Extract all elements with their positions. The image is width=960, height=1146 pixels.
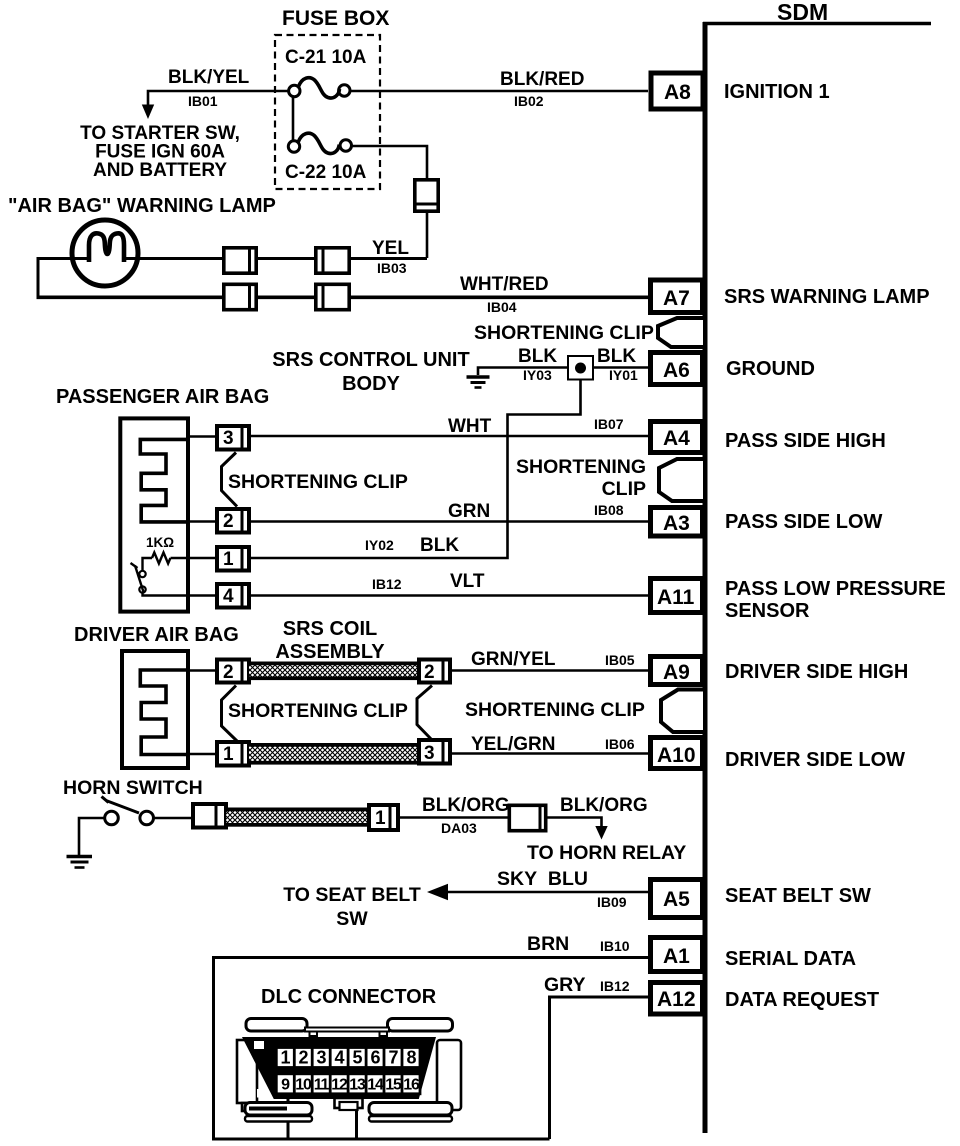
passenger pin 1 connector xyxy=(217,545,249,573)
DLC connector housing top-right bar xyxy=(388,1019,453,1032)
wire resistor to switch xyxy=(143,558,153,571)
wire GRN (IB08) pin2 to A3 xyxy=(251,520,648,523)
svg-text:DA03: DA03 xyxy=(441,820,477,836)
svg-text:A6: A6 xyxy=(663,359,690,382)
passenger air bag box xyxy=(120,418,188,611)
wire horn switch to connector xyxy=(154,817,191,820)
svg-text:TO HORN RELAY: TO HORN RELAY xyxy=(527,842,686,864)
horn pin 1 connector xyxy=(369,803,398,832)
wire driver box to pin1 xyxy=(190,753,215,756)
svg-text:ASSEMBLY: ASSEMBLY xyxy=(275,641,385,663)
junction box with node xyxy=(568,356,593,380)
driver pin 1 connector (left) xyxy=(217,740,249,768)
svg-text:FUSE BOX: FUSE BOX xyxy=(282,7,389,30)
shortening clip bracket (driver right) xyxy=(417,686,432,741)
wire lamp top row to YEL xyxy=(123,257,427,260)
svg-text:10: 10 xyxy=(295,1077,312,1094)
svg-text:3: 3 xyxy=(424,743,435,764)
svg-text:IB01: IB01 xyxy=(188,93,218,109)
DLC bottom-right bar xyxy=(369,1103,452,1116)
passenger pin 3 connector xyxy=(217,424,249,452)
svg-text:IY02: IY02 xyxy=(365,537,394,553)
svg-text:"AIR BAG" WARNING LAMP: "AIR BAG" WARNING LAMP xyxy=(8,195,276,217)
wire VLT (IB12) pin4 to A11 xyxy=(251,594,648,597)
svg-text:5: 5 xyxy=(352,1048,362,1068)
wire BLK/ORG (DA03) xyxy=(400,816,508,819)
DLC bottom-left lower bar xyxy=(245,1116,312,1122)
svg-text:GRN/YEL: GRN/YEL xyxy=(471,649,556,670)
DLC pin row 2 (pins 9-16) xyxy=(276,1074,420,1094)
DLC right ear xyxy=(437,1040,461,1110)
svg-text:WHT/RED: WHT/RED xyxy=(460,274,549,295)
wire resistor to pin1 connector xyxy=(171,557,216,560)
wire BRN (IB10) from A1 to DLC xyxy=(214,958,649,1140)
SDM main vertical bus line xyxy=(703,22,708,1133)
svg-text:4: 4 xyxy=(223,586,234,607)
svg-text:TO SEAT BELT: TO SEAT BELT xyxy=(283,884,421,906)
DLC left ear xyxy=(237,1040,257,1103)
connector A6 xyxy=(651,353,703,385)
SRS coil cable upper (shaded) xyxy=(249,662,419,681)
wire WHT/RED (IB04) lamp bottom row to A7 xyxy=(37,295,649,299)
svg-text:BLK: BLK xyxy=(597,346,636,367)
svg-text:A11: A11 xyxy=(657,586,695,609)
switch lever tick xyxy=(131,563,138,568)
svg-text:AND BATTERY: AND BATTERY xyxy=(93,160,227,181)
SRS coil cable lower (shaded) xyxy=(249,743,419,765)
inline connector pair bottom-left xyxy=(224,283,256,312)
svg-text:BLK/ORG: BLK/ORG xyxy=(560,795,648,816)
wire fuse C21 to C22 xyxy=(292,97,295,142)
SDM top wire xyxy=(703,22,931,26)
svg-text:A8: A8 xyxy=(664,81,691,104)
wire BLK IY03 to ground xyxy=(478,368,568,376)
svg-text:VLT: VLT xyxy=(450,571,485,592)
svg-text:PASS SIDE LOW: PASS SIDE LOW xyxy=(725,511,883,533)
arrow to seat belt sw xyxy=(427,884,448,901)
driver squib coil meander xyxy=(140,670,190,755)
svg-text:2: 2 xyxy=(298,1048,308,1068)
connector A11 xyxy=(651,579,703,613)
wire SKY BLU (IB09) from A5 xyxy=(444,891,648,894)
svg-text:YEL/GRN: YEL/GRN xyxy=(471,734,555,755)
svg-text:SHORTENING CLIP: SHORTENING CLIP xyxy=(465,699,645,721)
svg-text:GRN: GRN xyxy=(448,501,490,522)
svg-text:C-21 10A: C-21 10A xyxy=(285,47,367,68)
connector A10 xyxy=(651,738,703,769)
resistor 1K xyxy=(152,553,170,564)
fuse box dashed outline xyxy=(275,35,380,189)
horn switch lever tick xyxy=(102,797,109,803)
svg-text:SHORTENING CLIP: SHORTENING CLIP xyxy=(228,700,408,722)
connector A9 xyxy=(651,657,703,685)
connector A5 xyxy=(651,880,703,918)
DLC left foot xyxy=(242,1103,257,1111)
svg-text:SRS WARNING LAMP: SRS WARNING LAMP xyxy=(724,286,930,308)
svg-text:BODY: BODY xyxy=(342,373,400,395)
svg-text:IGNITION 1: IGNITION 1 xyxy=(724,81,830,103)
svg-text:A9: A9 xyxy=(663,661,690,684)
svg-text:SENSOR: SENSOR xyxy=(725,600,810,622)
ground (SRS control unit body) xyxy=(467,377,490,388)
wire DLC bottom bus xyxy=(212,1138,550,1141)
wire switch to pin4 row xyxy=(143,593,216,596)
svg-text:YEL: YEL xyxy=(372,238,409,259)
svg-text:12: 12 xyxy=(331,1077,348,1094)
coil pin 3 connector (right) xyxy=(419,738,450,766)
svg-text:IB08: IB08 xyxy=(594,502,624,518)
svg-text:IB12: IB12 xyxy=(600,978,630,994)
svg-text:3: 3 xyxy=(316,1048,326,1068)
fuse C-22 xyxy=(288,133,351,153)
svg-text:1KΩ: 1KΩ xyxy=(146,535,174,550)
wire driver box to pin2 xyxy=(190,669,215,672)
svg-text:IB06: IB06 xyxy=(605,736,635,752)
horn cable (shaded) xyxy=(226,808,367,827)
svg-text:PASS LOW PRESSURE: PASS LOW PRESSURE xyxy=(725,578,946,600)
svg-text:1: 1 xyxy=(223,549,234,570)
svg-text:SHORTENING: SHORTENING xyxy=(516,456,646,478)
wire YEL/GRN (IB06) to A10 xyxy=(452,752,648,755)
DLC bottom-left bar mark xyxy=(249,1107,287,1111)
svg-text:11: 11 xyxy=(314,1077,330,1094)
svg-text:C-22 10A: C-22 10A xyxy=(285,162,367,183)
svg-text:1: 1 xyxy=(375,808,386,829)
svg-text:SRS COIL: SRS COIL xyxy=(283,618,377,640)
svg-text:4: 4 xyxy=(334,1048,344,1068)
DLC main body (black) xyxy=(242,1037,436,1099)
svg-text:BLK: BLK xyxy=(518,346,557,367)
connector A12 xyxy=(651,983,703,1015)
svg-text:SERIAL DATA: SERIAL DATA xyxy=(725,948,856,970)
lamp filament xyxy=(89,233,124,262)
switch contact lower xyxy=(139,586,145,592)
connector A8 xyxy=(651,73,703,109)
svg-text:SEAT BELT SW: SEAT BELT SW xyxy=(725,885,871,907)
svg-text:IB05: IB05 xyxy=(605,652,635,668)
warning lamp bulb xyxy=(72,220,138,286)
svg-text:BLK/YEL: BLK/YEL xyxy=(168,67,250,88)
svg-text:A7: A7 xyxy=(663,287,690,310)
svg-text:IY01: IY01 xyxy=(609,367,638,383)
wire BLK/RED (IB02) to A8 xyxy=(350,90,648,93)
fuse C-21 xyxy=(289,78,350,98)
shortening clip symbol A7-A6 xyxy=(658,318,705,347)
DLC connector housing top-left bar xyxy=(246,1019,307,1032)
DLC bottom center tab xyxy=(335,1098,363,1108)
svg-text:SHORTENING CLIP: SHORTENING CLIP xyxy=(228,471,408,493)
passenger pin 2 connector xyxy=(217,507,249,535)
horn switch lever xyxy=(106,801,139,814)
shortening clip bracket (passenger) xyxy=(222,453,238,507)
svg-text:9: 9 xyxy=(281,1077,290,1094)
svg-text:PASSENGER AIR BAG: PASSENGER AIR BAG xyxy=(56,386,269,408)
inline connector pair top-right xyxy=(316,246,349,275)
svg-text:15: 15 xyxy=(385,1077,402,1094)
svg-text:A10: A10 xyxy=(657,744,696,767)
svg-text:GROUND: GROUND xyxy=(726,358,815,380)
svg-text:BRN: BRN xyxy=(527,933,569,955)
wire GRY (IB12) from A12 to DLC xyxy=(550,997,649,1139)
svg-text:IB09: IB09 xyxy=(597,894,627,910)
switch lever xyxy=(135,566,144,593)
svg-text:IB04: IB04 xyxy=(487,299,517,315)
wire DLC pin13 down xyxy=(355,1108,358,1139)
svg-text:A5: A5 xyxy=(663,888,690,911)
wire lamp top row left xyxy=(38,259,90,298)
horn connector (left) xyxy=(193,802,226,830)
DLC bottom-right lower bar xyxy=(369,1116,452,1122)
svg-text:16: 16 xyxy=(403,1077,420,1094)
svg-text:2: 2 xyxy=(223,511,234,532)
svg-text:6: 6 xyxy=(370,1048,380,1068)
inline connector pair top-left xyxy=(224,246,256,275)
svg-text:BLK/ORG: BLK/ORG xyxy=(422,795,510,816)
switch contact upper xyxy=(139,571,145,577)
arrow to horn relay xyxy=(595,826,607,840)
driver air bag box xyxy=(122,651,188,768)
svg-text:SDM: SDM xyxy=(777,0,828,25)
svg-text:SW: SW xyxy=(336,908,368,930)
wire pass box to pin2 xyxy=(190,520,215,523)
svg-text:14: 14 xyxy=(367,1077,384,1094)
svg-text:IY03: IY03 xyxy=(523,367,552,383)
shortening clip symbol A4-A3 xyxy=(659,459,705,501)
svg-text:3: 3 xyxy=(223,428,234,449)
svg-text:CLIP: CLIP xyxy=(602,478,646,500)
svg-text:2: 2 xyxy=(424,662,435,683)
svg-text:IB10: IB10 xyxy=(600,938,630,954)
inline connector BLK/ORG xyxy=(509,804,545,833)
svg-text:SRS CONTROL UNIT: SRS CONTROL UNIT xyxy=(272,349,469,371)
ground (horn switch) xyxy=(67,857,93,868)
svg-text:1: 1 xyxy=(223,744,234,765)
svg-text:PASS SIDE HIGH: PASS SIDE HIGH xyxy=(725,430,886,452)
svg-text:HORN SWITCH: HORN SWITCH xyxy=(63,777,203,799)
svg-text:GRY: GRY xyxy=(544,974,586,996)
inline connector pair bottom-right xyxy=(316,283,349,312)
svg-text:IB12: IB12 xyxy=(372,576,402,592)
svg-text:1: 1 xyxy=(280,1048,290,1068)
DLC housing top tabs xyxy=(310,1032,318,1037)
DLC body notch bottom-left xyxy=(257,1089,268,1098)
svg-text:IB02: IB02 xyxy=(514,93,544,109)
svg-text:IB07: IB07 xyxy=(594,416,624,432)
squib coil meander xyxy=(140,439,190,522)
passenger pin 4 connector xyxy=(217,582,249,610)
svg-text:WHT: WHT xyxy=(448,416,492,437)
connector A7 xyxy=(651,280,703,313)
connector A1 xyxy=(651,938,703,972)
svg-text:DLC CONNECTOR: DLC CONNECTOR xyxy=(261,986,437,1008)
svg-text:SKY BLU: SKY BLU xyxy=(497,868,588,890)
svg-text:A12: A12 xyxy=(657,988,696,1011)
wire junction down to BLK IY02 row xyxy=(251,380,581,559)
horn switch contact left xyxy=(105,811,119,825)
wire fuse C22 down to inline connector xyxy=(352,146,427,178)
DLC body notch top-left xyxy=(254,1041,264,1049)
driver pin 2 connector (left) xyxy=(217,658,249,685)
wire YEL (IB03) down to lamp row xyxy=(426,213,429,258)
svg-text:A1: A1 xyxy=(663,945,690,968)
svg-text:7: 7 xyxy=(388,1048,398,1068)
svg-text:8: 8 xyxy=(406,1048,416,1068)
wire GRN/YEL (IB05) to A9 xyxy=(452,669,648,672)
connector A3 xyxy=(651,508,703,537)
horn switch contact right xyxy=(140,811,154,825)
node dot xyxy=(575,363,586,374)
wire horn switch to ground xyxy=(79,818,105,855)
wire WHT (IB07) pin3 to A4 xyxy=(251,435,648,438)
svg-text:DRIVER SIDE LOW: DRIVER SIDE LOW xyxy=(725,749,905,771)
DLC pin row 1 (pins 1-8) xyxy=(276,1048,420,1068)
wire BLK/YEL (IB01) xyxy=(148,91,289,106)
svg-text:BLK: BLK xyxy=(420,535,459,556)
svg-text:DRIVER AIR BAG: DRIVER AIR BAG xyxy=(74,624,239,646)
svg-text:A3: A3 xyxy=(663,512,690,535)
coil pin 2 connector (right) xyxy=(419,658,450,685)
arrow to starter sw xyxy=(142,105,154,120)
svg-text:A4: A4 xyxy=(663,427,690,450)
DLC bottom-left bar xyxy=(245,1103,312,1116)
connector A4 xyxy=(651,422,703,453)
shortening clip bracket (driver left) xyxy=(222,686,238,742)
shortening clip symbol A9-A10 xyxy=(661,690,705,733)
svg-text:DRIVER SIDE HIGH: DRIVER SIDE HIGH xyxy=(725,661,908,683)
svg-text:BLK/RED: BLK/RED xyxy=(500,69,584,90)
svg-text:13: 13 xyxy=(349,1077,366,1094)
DLC housing top middle bar xyxy=(305,1028,389,1032)
wire DLC pin9 down xyxy=(287,1098,290,1139)
svg-text:SHORTENING CLIP: SHORTENING CLIP xyxy=(474,322,654,344)
svg-text:DATA REQUEST: DATA REQUEST xyxy=(725,989,879,1011)
svg-text:IB03: IB03 xyxy=(377,260,407,276)
wire pass box to pin3 xyxy=(190,435,215,438)
wire BLK/ORG to horn relay xyxy=(548,818,602,828)
inline connector below fuse C-22 xyxy=(413,180,440,211)
svg-text:2: 2 xyxy=(223,662,234,683)
wire BLK IY01 to A6 xyxy=(593,366,648,369)
